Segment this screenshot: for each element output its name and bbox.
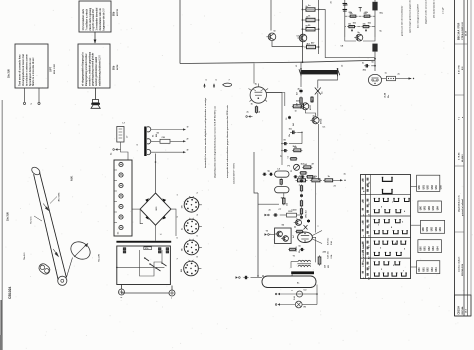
tube socket S-V5 <box>184 219 199 234</box>
switch S2 contacts <box>277 231 283 237</box>
power box label <box>144 247 152 250</box>
title divider 3 <box>455 165 465 167</box>
wire loop x325 <box>318 10 375 58</box>
svg-text:C88: C88 <box>162 137 165 139</box>
svg-text:Sinrte te s mosonte di usc: Sinrte te s mosonte di usc <box>32 57 35 86</box>
resistor R105 <box>347 26 349 28</box>
tube data box 2 <box>418 201 442 212</box>
svg-text:U83: U83 <box>432 267 434 272</box>
switch box S2 <box>275 228 292 244</box>
svg-text:C1: C1 <box>322 92 324 94</box>
svg-text:U81: U81 <box>427 226 429 231</box>
resistor R5a <box>292 149 294 151</box>
resistor R6 (boxed) <box>387 76 396 80</box>
title divider 1 <box>455 43 468 45</box>
tube V2 electrodes <box>372 77 379 79</box>
svg-text:1k2: 1k2 <box>304 164 307 166</box>
wire trafo left <box>291 261 298 263</box>
fuse F1 <box>297 291 303 297</box>
cable loop (mains lead) <box>262 276 316 288</box>
tube data box 5 <box>417 261 440 274</box>
svg-text:5 / 8.64: 5 / 8.64 <box>458 152 461 160</box>
svg-text:30e: 30e <box>388 95 390 98</box>
capacitor C9b <box>269 173 271 175</box>
svg-text:0.1: 0.1 <box>288 156 290 158</box>
wire TS4 down <box>305 110 315 117</box>
capacitor C4b <box>289 116 291 117</box>
terminal arrow right <box>409 77 412 79</box>
wire rail x3157 <box>315 182 317 233</box>
title divider 4 <box>455 231 465 233</box>
wire lamp <box>279 304 296 306</box>
svg-text:Tasti anone di comando funz: Tasti anone di comando funz <box>19 54 22 86</box>
junction bridge top <box>155 161 157 163</box>
terminal a <box>23 102 25 104</box>
capacitor C5b <box>283 150 285 152</box>
bridge diode D4 <box>162 216 166 220</box>
wire C7 <box>371 65 375 67</box>
svg-text:netzteil 220 V~ 50 Hz: netzteil 220 V~ 50 Hz <box>233 163 236 184</box>
svg-text:7: 7 <box>171 298 172 300</box>
table outline <box>361 175 411 279</box>
block B1 RF unit (box) <box>79 1 111 32</box>
terminal T1 <box>246 115 251 117</box>
bank coil 6 <box>119 215 123 219</box>
svg-text:1 hf verstarker stufe: 1 hf verstarker stufe <box>82 8 85 30</box>
wire down to V2 <box>374 59 376 71</box>
svg-text:U82: U82 <box>432 226 434 231</box>
resistor R1 below V1 <box>256 105 258 107</box>
table row 5 header pin marks <box>367 262 369 265</box>
svg-text:spannungen gemessen gegen chas: spannungen gemessen gegen chassis <box>410 0 412 33</box>
row y249 parts <box>288 249 290 251</box>
tube data box 4 <box>418 240 442 253</box>
wire row2 net <box>345 26 346 28</box>
wire label line <box>50 197 57 204</box>
tube socket S-V6 <box>184 240 199 255</box>
mains transformer T1 primary <box>298 260 311 261</box>
svg-text:8k2: 8k2 <box>293 123 295 126</box>
bank coil 7 <box>119 225 123 229</box>
svg-text:10-6: 10-6 <box>465 309 467 313</box>
svg-text:U84: U84 <box>439 226 442 231</box>
table-box connector 5 <box>411 266 417 268</box>
table row5 pin glyphs upper <box>375 262 380 265</box>
wire left rail bottom <box>254 152 258 193</box>
svg-text:begrenzer-det de 3 V: begrenzer-det de 3 V <box>102 8 105 31</box>
svg-text:U80: U80 <box>420 205 422 210</box>
power switch contact 3 <box>156 268 161 271</box>
junction rod left <box>302 61 304 63</box>
power box contact c <box>166 248 169 250</box>
resistor R2b <box>311 96 313 97</box>
wire rail x262 <box>257 193 259 276</box>
svg-text:gemessen mit rohrenvoltmeter: gemessen mit rohrenvoltmeter <box>401 5 404 36</box>
tone knot X <box>304 225 308 230</box>
bridge diode D2 <box>162 199 166 203</box>
svg-text:alle widerstande in ohm: alle widerstande in ohm <box>433 0 436 18</box>
svg-text:18a 2UK: 18a 2UK <box>9 69 11 78</box>
capacitor C4 <box>290 131 293 133</box>
svg-text:6.3V 21e: 6.3V 21e <box>328 238 330 245</box>
junction C101 left <box>302 9 304 11</box>
wire stub rod to rail <box>300 62 302 68</box>
mains plug left <box>121 285 123 290</box>
dial pulley top <box>30 166 41 177</box>
bank coil 5 <box>119 204 123 208</box>
wire bridge right <box>171 209 176 236</box>
tube socket S-V7 <box>184 261 199 276</box>
ferrite rod antenna <box>301 70 338 74</box>
wire bridge left <box>132 208 140 210</box>
tone knot cap <box>308 219 310 220</box>
table row1 pin glyph 1 <box>383 177 393 181</box>
wire B2 to speaker <box>95 88 97 100</box>
title bottom box <box>455 295 472 316</box>
svg-text:U81: U81 <box>425 246 427 251</box>
dial cord left <box>34 174 59 280</box>
wire TS1 emitter down-right <box>272 41 303 47</box>
wire rod right down <box>318 75 338 84</box>
svg-text:C230: C230 <box>292 210 298 212</box>
svg-text:U80: U80 <box>423 226 425 231</box>
wire OPT terminal a <box>24 88 26 102</box>
svg-text:U81: U81 <box>423 184 425 189</box>
svg-text:2f: 2f <box>187 139 189 141</box>
table row4 pin glyphs lower <box>375 252 380 255</box>
trimmer TR1 <box>294 164 300 170</box>
junction long wire right <box>374 58 376 60</box>
wire V3 right dn <box>312 239 322 244</box>
dial cord right <box>40 172 67 277</box>
fuse row wire <box>279 293 297 295</box>
svg-text:4n7: 4n7 <box>292 235 295 238</box>
table subheader column <box>370 175 372 279</box>
wire bridge bottom <box>155 225 157 241</box>
wire rod left down <box>300 75 302 87</box>
bank coil 1 <box>119 162 123 166</box>
capacitor C15 <box>243 277 245 279</box>
wire rail A vertical <box>302 0 304 62</box>
antenna tap <box>359 8 361 12</box>
svg-text:U84: U84 <box>437 205 440 210</box>
tuning drum <box>68 238 94 262</box>
table row divider 3 <box>361 236 411 238</box>
wire T4 to loop <box>251 277 263 279</box>
svg-text:1k5: 1k5 <box>287 203 289 206</box>
tone knot transistor <box>296 220 302 226</box>
wire +HT rail vertical <box>179 0 181 64</box>
transistor TS3 <box>356 34 363 41</box>
svg-text:100n 3k3: 100n 3k3 <box>306 210 308 218</box>
wire T1 <box>249 116 253 118</box>
bank coil 2 <box>119 173 123 177</box>
svg-text:5M: 5M <box>181 205 183 208</box>
resistor R103 <box>348 15 350 17</box>
wire c4 <box>297 131 302 133</box>
svg-text:nf eingangswahler klangregel u: nf eingangswahler klangregel u <box>82 52 85 86</box>
svg-text:31: 31 <box>331 1 333 3</box>
wire join <box>300 107 302 109</box>
bank ticks <box>114 169 117 171</box>
junction loop left <box>262 275 264 277</box>
svg-text:misch stufe regelung: misch stufe regelung <box>89 7 92 30</box>
svg-text:A.M.: A.M. <box>71 175 74 181</box>
svg-text:abgleichpunkte siehe abgleicha: abgleichpunkte siehe abgleichanleitung i… <box>213 106 216 178</box>
tube V1 pin stubs <box>257 84 259 87</box>
svg-text:vorstufe u. endstufe gegenkopp: vorstufe u. endstufe gegenkopp <box>88 51 91 86</box>
table row 1 header pin marks <box>367 178 369 181</box>
svg-text:demodulator ratio de: demodulator ratio de <box>99 7 102 30</box>
svg-text:Uscamppadesta al lavoro bat: Uscamppadesta al lavoro bat <box>22 54 25 86</box>
capacitor C9a <box>262 173 264 175</box>
svg-text:AF116: AF116 <box>320 119 323 124</box>
svg-text:L1: L1 <box>296 65 298 67</box>
comp K2 <box>299 172 300 174</box>
terminal T5 <box>275 293 280 295</box>
svg-text:c in pF: c in pF <box>443 7 445 14</box>
table row3 pin glyphs lower <box>375 231 380 234</box>
svg-text:U83: U83 <box>432 184 434 189</box>
svg-text:4 fm 705: 4 fm 705 <box>458 64 461 74</box>
wire L10 down <box>283 193 285 197</box>
capacitor C106 (screen) <box>372 44 377 52</box>
tone knot res <box>295 231 296 233</box>
junction net a <box>351 30 353 32</box>
svg-text:1f: 1f <box>187 127 189 129</box>
capacitor C5a <box>283 143 285 145</box>
wire wafer out 3 <box>151 151 185 153</box>
svg-text:printed in holland: printed in holland <box>461 198 464 216</box>
tube V2 envelope <box>368 74 381 85</box>
terminal b <box>38 102 40 104</box>
wire V3 right up <box>312 231 322 236</box>
svg-text:B5X 1 DR: B5X 1 DR <box>54 64 56 74</box>
wire amp rail <box>267 93 283 141</box>
wire bridge left drop <box>140 209 143 224</box>
capacitor C102 <box>304 28 306 30</box>
svg-text:U83: U83 <box>433 246 435 251</box>
top row parts y177 <box>293 176 295 178</box>
svg-text:3f: 3f <box>187 150 189 152</box>
wire lamp right <box>302 304 317 306</box>
bank coil 3 <box>119 183 123 187</box>
wire +HT rail horizontal long <box>180 60 375 63</box>
svg-text:AT/CW: AT/CW <box>116 8 119 16</box>
switch wafer bar <box>144 127 146 157</box>
table row4 pin glyphs upper <box>375 241 380 244</box>
svg-text:trennstelle fur service zwecke: trennstelle fur service zwecke abgleich … <box>204 97 207 168</box>
terminal T6 <box>275 303 280 305</box>
bridge diode D1 <box>145 198 149 202</box>
wire wafer out 1 <box>151 129 185 131</box>
cord arrow 2 <box>53 249 58 257</box>
svg-text:T12 mm: T12 mm <box>31 216 33 224</box>
svg-text:AF117: AF117 <box>309 105 312 110</box>
wire stub <box>261 240 263 242</box>
svg-text:T8a 2L5: T8a 2L5 <box>24 252 26 260</box>
wire r5 to rail <box>289 143 302 145</box>
mains wire <box>122 292 170 294</box>
svg-text:B5X14A: B5X14A <box>461 306 464 314</box>
tube socket S-V4 <box>184 198 199 213</box>
svg-text:12Ta: 12Ta <box>145 248 149 250</box>
wafer coil 3 <box>147 150 151 155</box>
svg-text:abgleich siehe service-heft: abgleich siehe service-heft <box>425 0 428 24</box>
wire L20 down <box>121 142 129 160</box>
title strip inner line 1 <box>463 0 465 316</box>
svg-text:1m: 1m <box>118 231 120 234</box>
transformer block OPT (box with rotated description text) <box>15 44 48 88</box>
wire B1 to B2 with arrow <box>94 32 96 43</box>
table-box connector 3 <box>411 224 421 226</box>
power box inner outline <box>140 250 163 276</box>
table row2 pin glyphs lower <box>375 210 380 213</box>
svg-text:U83: U83 <box>433 205 435 210</box>
table row divider 2 <box>361 215 411 217</box>
svg-text:T4a LVB: T4a LVB <box>98 254 101 262</box>
note arrow b <box>213 84 215 88</box>
svg-text:0.5: 0.5 <box>286 118 288 120</box>
svg-text:U82: U82 <box>428 184 430 189</box>
resistor R20 <box>319 255 321 257</box>
terminal T3 <box>265 233 270 235</box>
svg-text:48.464.5: 48.464.5 <box>461 153 464 162</box>
terminal 2a <box>113 148 118 150</box>
table row 3 header pin marks <box>367 220 369 223</box>
bridge rectifier B30 outline <box>140 193 171 225</box>
wire R6 right <box>396 78 412 80</box>
resistor R7 <box>302 166 304 168</box>
wire bridge feed <box>155 154 157 193</box>
table row5 pin glyphs lower <box>375 273 380 276</box>
svg-text:klangregelung vorstufe treiber: klangregelung vorstufe treiber <box>85 53 88 86</box>
table row 4 header pin marks <box>367 241 369 244</box>
svg-text:netzteil gleichrichter stabili: netzteil gleichrichter stabili <box>95 57 98 86</box>
svg-text:B5X14A 9/64: B5X14A 9/64 <box>461 263 464 276</box>
svg-text:ta moludom e antenna comm: ta moludom e antenna comm <box>25 54 28 86</box>
resistor R102 <box>304 46 306 48</box>
table row2 pin glyphs upper <box>375 198 380 201</box>
junction R101 <box>302 19 304 21</box>
svg-text:UL84: UL84 <box>384 92 387 98</box>
svg-text:U83: U83 <box>436 226 438 231</box>
power switch contact 2 <box>150 264 155 267</box>
svg-text:B5b: B5b <box>114 65 116 70</box>
svg-text:AF/M: AF/M <box>116 64 119 70</box>
wafer coil 1 <box>147 127 151 132</box>
wire wafer out 2 <box>151 140 160 142</box>
svg-text:U80: U80 <box>419 184 421 189</box>
tube V1 envelope <box>250 87 266 103</box>
resistor R9v <box>280 178 282 179</box>
svg-text:U84: U84 <box>437 246 440 251</box>
wire net left rail <box>344 14 346 37</box>
speaker LS <box>93 100 99 103</box>
coil L20 (vertical IF coil) <box>117 127 124 143</box>
wire V1 to amp <box>267 93 285 107</box>
power switch contact 4 <box>162 263 167 266</box>
wire V3 right <box>312 237 315 255</box>
electrolytic C104 <box>344 0 346 14</box>
table row divider 4 <box>361 257 411 259</box>
capacitor C2 <box>300 89 302 91</box>
svg-text:B5X 14 A / 70 R: B5X 14 A / 70 R <box>458 22 461 40</box>
svg-text:B5b: B5b <box>114 11 116 16</box>
svg-text:stabilisierung heizkreis 6.3 V: stabilisierung heizkreis 6.3 V <box>99 55 102 86</box>
table row 2 header pin marks <box>367 199 369 202</box>
terminal T4 (pickup) <box>236 276 241 278</box>
bottom row R9 <box>310 179 312 181</box>
wire V2 right <box>382 78 386 80</box>
svg-text:L2: L2 <box>342 65 344 67</box>
svg-text:30c: 30c <box>299 250 301 253</box>
block B2 AF amplifier (box) <box>78 44 110 88</box>
component K1 boxed <box>160 139 170 143</box>
svg-text:AM: AM <box>180 269 183 272</box>
capacitor C105 (screen) <box>372 2 377 11</box>
coil L10 (rounded box) <box>275 187 289 193</box>
svg-text:7 oszillator u. misch: 7 oszillator u. misch <box>85 8 88 30</box>
svg-text:40 2 GHk: 40 2 GHk <box>58 192 61 202</box>
note arrow a <box>204 84 206 88</box>
svg-text:CB1024: CB1024 <box>458 305 461 314</box>
small comp x317 y255 <box>315 255 317 262</box>
coil L9 (rounded box) <box>275 171 289 177</box>
tube V3 grid <box>301 235 309 237</box>
tube V1 electrodes <box>255 91 263 93</box>
transistor TS4 <box>302 103 309 110</box>
capacitor C101 <box>304 9 306 11</box>
cord drum link <box>66 258 72 278</box>
tube V3 envelope <box>298 232 313 242</box>
table row1 pin glyph 2 <box>383 189 393 193</box>
svg-text:abgleichkurve b: abgleichkurve b <box>459 195 461 212</box>
note pill c <box>223 83 231 86</box>
resistor R104 <box>362 15 364 17</box>
scan page left edge shadow <box>1 100 3 350</box>
svg-text:P1: P1 <box>291 170 293 172</box>
title strip inner line 2 <box>467 0 469 316</box>
power box contact b <box>158 248 161 250</box>
bottom row R8 <box>296 179 298 181</box>
title strip outer line <box>454 0 456 316</box>
small parts column x300 <box>301 179 303 180</box>
svg-text:regl ZF verstark 452: regl ZF verstark 452 <box>92 8 95 30</box>
resistor R2 <box>300 96 302 98</box>
svg-text:OPT: OPT <box>50 66 53 72</box>
svg-text:messpunkt mit rohrenvoltmeter: messpunkt mit rohrenvoltmeter gegen chas… <box>226 105 229 178</box>
terminal T2 <box>265 214 270 216</box>
resistor R5c <box>290 158 291 160</box>
resistor R106 <box>361 26 363 28</box>
svg-text:U82: U82 <box>428 267 430 272</box>
wire row1 net <box>345 15 348 17</box>
svg-text:CTR A LOWE 4 U: CTR A LOWE 4 U <box>461 22 464 40</box>
svg-text:1 verstarker demodul: 1 verstarker demodul <box>96 7 99 30</box>
transistor TS1 <box>268 33 276 41</box>
wire row arrow <box>335 179 342 181</box>
power switch contact 1 <box>145 258 149 261</box>
wire net right rail <box>374 9 376 37</box>
title divider 2 <box>455 94 465 96</box>
svg-text:bei netzspannung 220 V: bei netzspannung 220 V <box>417 4 420 28</box>
dial lamp LA1 <box>295 301 302 308</box>
wire rail right mid <box>317 93 319 117</box>
transistor TS2 <box>299 34 307 42</box>
transistor TS5 <box>312 117 319 124</box>
resistor R3h <box>292 105 293 107</box>
